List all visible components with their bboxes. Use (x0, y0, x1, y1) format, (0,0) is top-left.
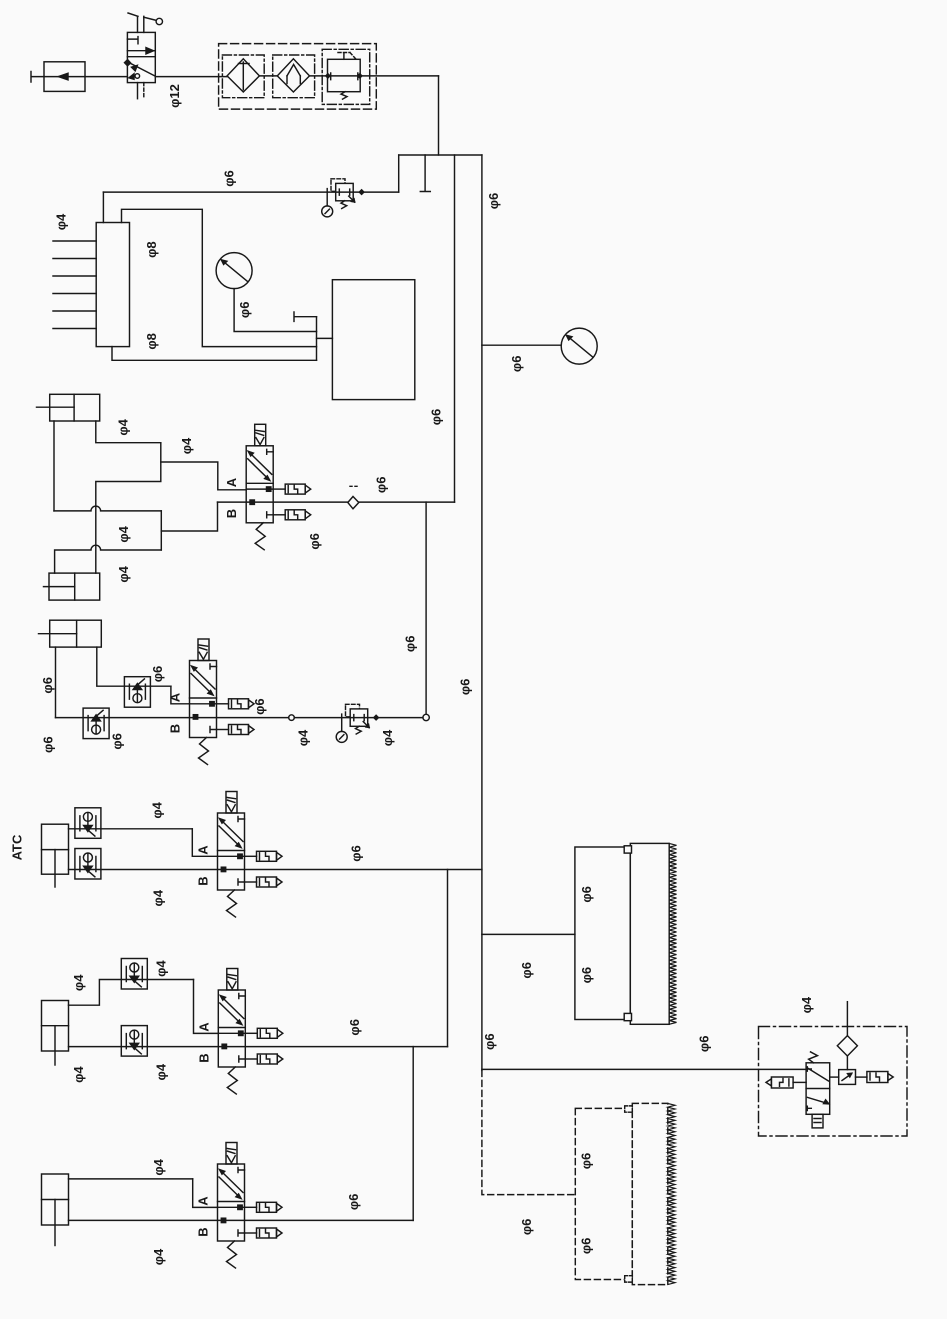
filter diamond (837, 1036, 857, 1056)
air knife bar (630, 843, 669, 1024)
wire manifold pipe P2 (122, 209, 317, 346)
manifold outlet stubs (53, 241, 96, 329)
wire B-side link (with crossover hop) (54, 506, 161, 511)
svg-text:φ6: φ6 (41, 736, 56, 753)
wire stub into control box (317, 337, 333, 339)
svg-text:φ4: φ4 (295, 729, 310, 746)
svg-text:φ12: φ12 (167, 84, 182, 108)
wire gauge drop (234, 289, 316, 332)
svg-text:ATC: ATC (10, 834, 25, 860)
svg-text:φ6: φ6 (579, 1153, 594, 1170)
connector block top (625, 1106, 633, 1112)
air gun dash-dot enclosure (759, 1027, 908, 1137)
flow control F6 (121, 1026, 147, 1057)
pressure gauge (manifold) (216, 253, 252, 289)
plugged branch (294, 312, 317, 321)
svg-text:φ6: φ6 (40, 677, 55, 694)
svg-text:φ4: φ4 (151, 1158, 166, 1175)
exhaust silencer left (766, 1077, 806, 1088)
wire C1 right port (96, 421, 161, 443)
svg-text:φ6: φ6 (374, 477, 389, 494)
svg-text:φ4: φ4 (53, 213, 68, 230)
wire C3 right port (97, 647, 171, 686)
svg-text:A: A (224, 477, 239, 487)
wire A feed (193, 1179, 218, 1208)
svg-text:φ6: φ6 (252, 698, 267, 715)
air knife bar dashed (632, 1103, 668, 1284)
wire outlet (846, 1002, 848, 1036)
svg-text:φ6: φ6 (519, 962, 534, 979)
wire distribution bus (481, 155, 483, 1070)
flow control F3 (75, 808, 101, 839)
wire diamond to block (846, 1056, 848, 1070)
wire block to silencer (856, 1076, 867, 1078)
solenoid valve V4 (218, 969, 282, 1095)
wire header left drop (398, 155, 400, 192)
connector block bottom (625, 1276, 633, 1282)
spring (air gun) (809, 1052, 818, 1063)
svg-text:φ4: φ4 (380, 729, 395, 746)
filter / water separator (227, 59, 259, 92)
wire (259, 75, 277, 77)
svg-text:B: B (224, 509, 239, 518)
wire bottom port / main line group5 (69, 1219, 414, 1221)
plugged stub (420, 155, 430, 192)
svg-text:φ4: φ4 (154, 960, 169, 977)
svg-text:φ4: φ4 (116, 525, 131, 542)
svg-text:φ4: φ4 (149, 801, 164, 818)
svg-text:A: A (196, 1196, 211, 1206)
svg-text:φ6: φ6 (519, 1219, 534, 1236)
wire main drop (438, 76, 440, 155)
svg-text:B: B (196, 876, 211, 885)
cylinder C3 (39, 620, 102, 647)
svg-text:φ6: φ6 (579, 1238, 594, 1255)
svg-text:φ6: φ6 (509, 356, 524, 373)
wire main P line group1 (218, 501, 455, 503)
svg-text:φ6: φ6 (579, 967, 594, 984)
svg-text:φ4: φ4 (154, 1063, 169, 1080)
pressure regulator (326, 53, 362, 100)
flow control F4 (75, 849, 101, 880)
cylinder C1 (37, 394, 100, 421)
wire group3-group4 link (447, 870, 449, 1047)
svg-text:φ6: φ6 (458, 679, 473, 696)
wire riser to P line (425, 502, 427, 714)
nozzle teeth dashed unit (668, 1103, 675, 1284)
node circle corner (423, 714, 429, 720)
solenoid valve V5 (218, 1143, 283, 1269)
wire feed to air gun (482, 1068, 806, 1070)
wire A feed (161, 462, 246, 490)
cylinder C2 (44, 573, 100, 600)
air manifold block (96, 223, 129, 347)
check valve / source unit (44, 62, 85, 92)
svg-text:φ6: φ6 (348, 845, 363, 862)
svg-text:φ6: φ6 (402, 636, 417, 653)
svg-text:φ6: φ6 (110, 733, 125, 750)
wire branch bus (454, 155, 456, 502)
svg-text:φ4: φ4 (116, 565, 131, 582)
svg-text:φ4: φ4 (71, 974, 86, 991)
wire valve to nozzle block (830, 1076, 839, 1078)
wire dashed feed (482, 1070, 575, 1194)
cylinder C6 (42, 1174, 69, 1246)
cylinder C5 (42, 1001, 69, 1066)
air knife plenum (575, 847, 630, 1020)
wire A feed (192, 829, 217, 857)
wire B feed (161, 502, 217, 531)
svg-text:φ8: φ8 (144, 241, 159, 258)
wire manifold header (399, 154, 482, 156)
svg-text:φ6: φ6 (579, 886, 594, 903)
wire manifold pipe P1 (102, 192, 104, 222)
node circle (289, 715, 295, 721)
nozzle teeth (669, 843, 676, 1024)
wire top port (69, 980, 194, 1006)
wire top port (69, 1178, 193, 1180)
svg-text:B: B (196, 1227, 211, 1236)
manual button (air gun) (812, 1114, 823, 1128)
wire bottom port / main line group3 (69, 869, 482, 871)
svg-text:A: A (196, 1022, 211, 1032)
quick coupling (348, 486, 359, 509)
wire collector vertical (316, 317, 318, 361)
svg-text:φ6: φ6 (486, 193, 501, 210)
svg-text:A: A (196, 845, 211, 855)
solenoid valve V3 (218, 792, 283, 918)
wire C3 left port to main (55, 647, 57, 718)
wire bottom port / main line group4 (69, 1046, 448, 1048)
FRL unit outer dashed box (219, 44, 377, 110)
svg-text:φ6: φ6 (482, 1033, 497, 1050)
wire (294, 717, 423, 719)
svg-text:φ4: φ4 (151, 1248, 166, 1265)
solenoid valve V2 (190, 639, 255, 765)
exhaust silencer right (867, 1072, 893, 1083)
svg-text:φ6: φ6 (429, 409, 444, 426)
wire B link vertical (160, 511, 162, 550)
pressure gauge (bus) (561, 328, 597, 364)
cylinder C4 (42, 824, 69, 887)
wire group4-group5 link (412, 1047, 414, 1221)
hand lever shut-off valve (125, 13, 163, 99)
wire C2 left link (with crossover hop) (55, 545, 162, 573)
svg-text:φ6: φ6 (237, 302, 252, 319)
wire regulator line to manifold (103, 191, 398, 193)
flow control F5 (121, 959, 147, 990)
svg-text:φ6: φ6 (307, 533, 322, 550)
wire valve to FRL (155, 76, 227, 78)
solenoid valve V1 (246, 424, 311, 550)
filter sub box (222, 55, 264, 98)
connector block bottom (624, 1013, 631, 1020)
regulator sub box (322, 49, 370, 104)
svg-text:φ6: φ6 (346, 1194, 361, 1211)
wire top port (69, 828, 193, 830)
lubricator (277, 59, 309, 92)
svg-text:φ4: φ4 (151, 889, 166, 906)
svg-text:B: B (168, 724, 183, 733)
wire main B line group2 (56, 717, 289, 719)
svg-text:φ6: φ6 (347, 1019, 362, 1036)
wire feed (482, 933, 575, 935)
svg-text:φ4: φ4 (179, 437, 194, 454)
pressure regulator with gauge (top line) (322, 179, 364, 217)
wire A feed (171, 686, 190, 704)
wire source to hand valve (85, 76, 127, 78)
wire manifold pipe P3 (112, 347, 317, 361)
svg-text:B: B (196, 1053, 211, 1062)
control unit box (332, 280, 414, 400)
svg-text:φ6: φ6 (696, 1036, 711, 1053)
wire C1 left port (53, 421, 55, 511)
svg-text:φ6: φ6 (222, 170, 237, 187)
svg-text:φ6: φ6 (150, 666, 165, 683)
svg-text:φ4: φ4 (116, 418, 131, 435)
flow control F1 (124, 677, 150, 708)
svg-text:φ8: φ8 (144, 333, 159, 350)
wire A-side link (96, 443, 161, 573)
wire A feed (194, 980, 219, 1034)
nozzle block (839, 1070, 856, 1085)
wire gauge tee (482, 344, 561, 346)
svg-text:A: A (168, 692, 183, 702)
air knife plenum dashed (575, 1108, 632, 1279)
pressure regulator with gauge (group2) (336, 704, 378, 742)
lubricator sub box (273, 55, 315, 98)
flow control F2 (83, 708, 109, 739)
svg-text:φ4: φ4 (799, 996, 814, 1013)
connector block top (624, 846, 631, 853)
air gun valve body (806, 1063, 830, 1115)
svg-text:φ4: φ4 (71, 1066, 86, 1083)
wire FRL to corner (360, 75, 438, 77)
wire (310, 75, 328, 77)
air supply inlet plug (31, 72, 44, 83)
